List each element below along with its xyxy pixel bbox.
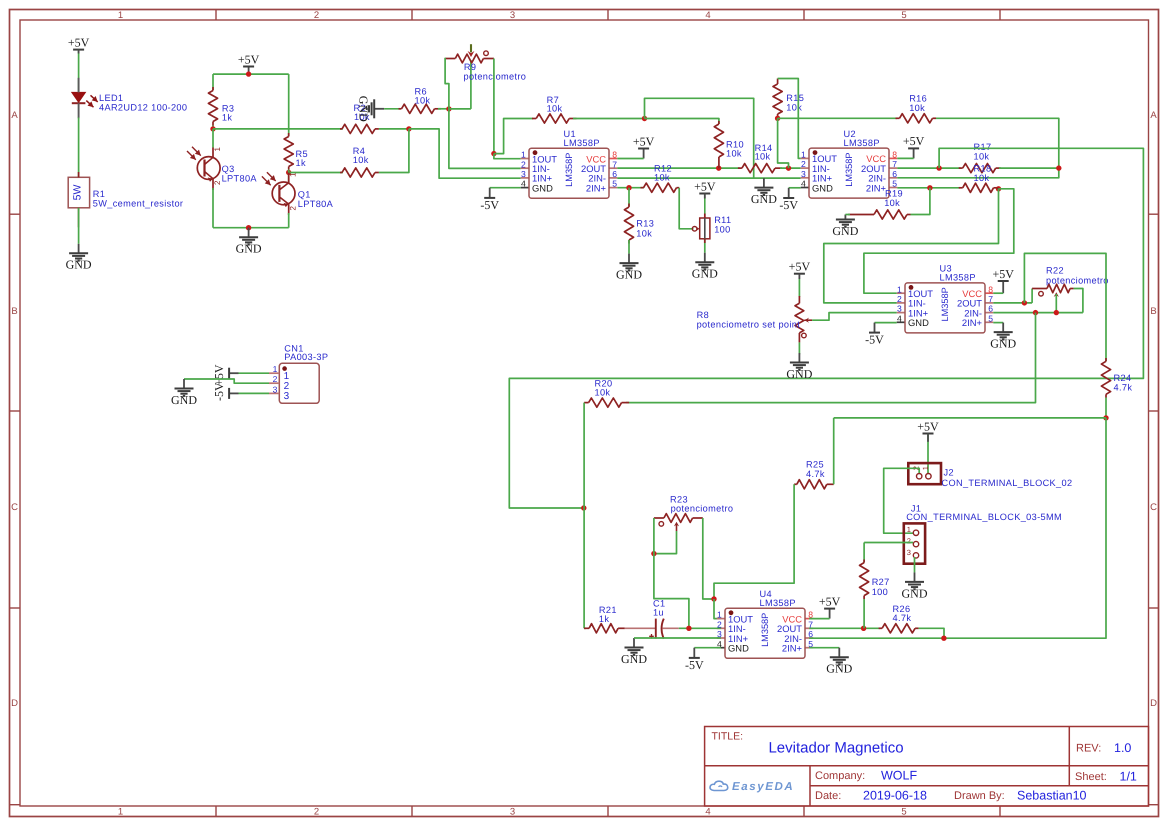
junction U2 pin5/R19 <box>927 185 932 190</box>
svg-text:GND: GND <box>902 586 928 600</box>
wire U3 pin7 row <box>993 302 1032 304</box>
svg-text:4: 4 <box>521 179 526 189</box>
op-amp U1 LM358P <box>521 158 529 160</box>
ground (U3 pin5) <box>1002 323 1004 333</box>
svg-text:10k: 10k <box>654 172 670 182</box>
wire CN1 pin1 to +5V <box>239 372 270 374</box>
trimmer R11 100 <box>700 218 710 239</box>
resistor R4 <box>340 172 342 174</box>
wire R17 to R16 vertical <box>999 167 1059 169</box>
svg-text:10k: 10k <box>636 228 652 238</box>
svg-text:10k: 10k <box>595 387 611 397</box>
resistor R10 <box>718 121 720 124</box>
wire R8 bottom to GND <box>798 342 800 354</box>
svg-text:R27: R27 <box>872 577 890 587</box>
svg-text:2IN+: 2IN+ <box>962 317 983 328</box>
ground (U4 pin3) <box>633 638 635 648</box>
junction R17/R16 <box>1056 165 1061 170</box>
svg-text:3: 3 <box>273 384 278 394</box>
power -5V rotated (CN1 pin3) <box>229 392 238 394</box>
svg-text:LM358P: LM358P <box>564 138 600 148</box>
svg-text:10k: 10k <box>415 96 431 106</box>
connector J1 CON_TERMINAL_BLOCK_03-5MM <box>904 523 925 563</box>
svg-text:J2: J2 <box>944 468 954 478</box>
svg-text:LPT80A: LPT80A <box>222 174 258 184</box>
svg-text:GND: GND <box>990 336 1016 350</box>
svg-text:GND: GND <box>616 267 642 281</box>
junction U1 pin1 node <box>491 151 496 156</box>
svg-text:1k: 1k <box>222 113 232 123</box>
junction R27 bottom <box>861 626 866 631</box>
wire U4 pin8 to +5V <box>809 618 830 620</box>
title block outline <box>705 727 1149 807</box>
power +5V (LED column) <box>73 49 84 51</box>
svg-text:GND: GND <box>786 367 812 381</box>
svg-text:B: B <box>11 306 17 317</box>
power +5V (R8 top) <box>794 273 805 275</box>
svg-text:1: 1 <box>921 466 930 470</box>
svg-text:PA003-3P: PA003-3P <box>284 352 328 362</box>
resistor R12 <box>641 187 644 189</box>
junction U3 pin7 <box>1022 300 1027 305</box>
junction U2 pin2 node <box>786 165 791 170</box>
svg-text:8: 8 <box>892 149 897 159</box>
svg-text:2IN+: 2IN+ <box>866 182 887 193</box>
junction pin6/wiper <box>1054 310 1059 315</box>
wire J1 pin3 to GND <box>914 557 916 572</box>
wire node to U4 pin1 <box>714 599 721 619</box>
frame column ticks top <box>215 10 217 21</box>
wire R23 right to U4 pin1 node <box>703 518 714 599</box>
svg-text:LM358P: LM358P <box>844 138 880 148</box>
wire R12 to R11 wiper <box>679 188 693 229</box>
svg-text:GND: GND <box>751 192 777 206</box>
wire R24 bottom to junction <box>1105 398 1107 418</box>
wire R2 to junction <box>379 128 409 130</box>
capacitor C1 1u polarized <box>625 627 655 629</box>
power +5V (U1 VCC) <box>643 149 645 159</box>
wire +5V to J2 pin1 <box>927 434 929 474</box>
junction R10 bottom <box>716 165 721 170</box>
svg-text:5W_cement_resistor: 5W_cement_resistor <box>93 198 184 208</box>
wire +5V to R3 <box>212 74 214 90</box>
svg-text:+5V: +5V <box>633 134 655 148</box>
power -5V (U3) <box>874 323 876 333</box>
resistor R3 <box>212 87 214 91</box>
resistor R13 <box>628 188 630 206</box>
wire node up to R7 <box>494 119 533 154</box>
ground (U1 pin6 row) <box>763 178 765 188</box>
svg-text:10k: 10k <box>755 151 771 161</box>
power +5V (phototransistor group) <box>248 67 250 75</box>
wire +5V to R11 <box>704 194 706 219</box>
svg-text:+5V: +5V <box>903 134 925 148</box>
svg-text:2: 2 <box>521 159 526 169</box>
svg-text:Drawn By:: Drawn By: <box>954 790 1005 802</box>
wire U4 pin3 row <box>634 637 721 639</box>
wire R4 to junction up <box>379 129 409 173</box>
svg-text:4.7k: 4.7k <box>1114 382 1133 392</box>
svg-text:C: C <box>1150 502 1157 513</box>
wire R19 to U2 pin5 <box>911 188 930 215</box>
svg-text:4: 4 <box>897 313 902 323</box>
wire R26 right down to pin6 row <box>919 628 944 638</box>
svg-text:5W: 5W <box>71 185 83 201</box>
svg-text:8: 8 <box>988 284 993 294</box>
power -5V (U4) <box>693 648 695 658</box>
svg-text:1: 1 <box>213 147 222 152</box>
svg-text:10k: 10k <box>547 104 563 114</box>
wire CN1 pin2 to GND <box>184 379 269 383</box>
resistor R16 <box>896 117 900 119</box>
junction U1 pin5/R13 <box>626 185 631 190</box>
svg-text:potenciometro: potenciometro <box>671 503 734 513</box>
svg-text:CON_TERMINAL_BLOCK_03-5MM: CON_TERMINAL_BLOCK_03-5MM <box>906 512 1062 522</box>
wire R25 left down to U4 pin1 node <box>714 484 794 599</box>
svg-text:-5V: -5V <box>685 658 704 672</box>
svg-text:2: 2 <box>213 180 222 185</box>
svg-text:10k: 10k <box>974 152 990 162</box>
resistor R2 <box>340 128 342 130</box>
potentiometer R9 <box>445 58 455 60</box>
resistor R18 <box>959 187 963 189</box>
wire U2 pin7 feedback long loop <box>509 148 1143 508</box>
wire gnd to R6 <box>384 108 400 110</box>
svg-text:7: 7 <box>892 159 897 169</box>
resistor R5 <box>288 133 290 137</box>
svg-text:+5V: +5V <box>917 419 939 433</box>
svg-text:3: 3 <box>907 548 911 557</box>
junction pin6/R20 net <box>1033 310 1038 315</box>
wire LED1 to R1 <box>78 118 80 178</box>
wire junction to Q1 collector <box>288 173 290 184</box>
frame row ticks right <box>1149 213 1159 215</box>
svg-text:D: D <box>11 698 18 709</box>
junction R24 bottom <box>1103 415 1108 420</box>
svg-text:8: 8 <box>612 150 617 160</box>
svg-text:10k: 10k <box>726 149 742 159</box>
wire R6 to junction <box>438 108 449 110</box>
svg-text:1.0: 1.0 <box>1114 741 1131 755</box>
resistor R21 <box>584 627 589 629</box>
svg-text:4: 4 <box>801 179 806 189</box>
svg-text:LM358P: LM358P <box>564 153 574 187</box>
wire junction to U1 pin3 <box>409 129 521 178</box>
svg-text:1k: 1k <box>599 614 609 624</box>
wire node to R2 <box>213 128 343 130</box>
wire R3 to node <box>212 126 214 129</box>
svg-text:LM358P: LM358P <box>940 273 976 283</box>
wire U1 pin8 to +5V <box>617 158 643 160</box>
svg-text:2IN+: 2IN+ <box>782 642 803 653</box>
svg-text:5: 5 <box>901 10 906 21</box>
ground (R11) <box>704 253 706 263</box>
svg-text:5: 5 <box>988 313 993 323</box>
LED LED1 <box>72 92 86 102</box>
svg-text:1: 1 <box>273 364 278 374</box>
junction C1/R23/U4 pin2 <box>686 626 691 631</box>
svg-text:1: 1 <box>118 806 123 817</box>
svg-text:6: 6 <box>988 304 993 314</box>
svg-text:6: 6 <box>612 169 617 179</box>
wire R18 node to U3 pin2 <box>824 189 999 303</box>
svg-text:1: 1 <box>118 10 123 21</box>
wire U1 pin7 row to U2 pin2 <box>617 167 740 169</box>
svg-text:2: 2 <box>314 806 319 817</box>
svg-text:4.7k: 4.7k <box>806 469 825 479</box>
power +5V (U3 VCC) <box>1002 281 1004 293</box>
power +5V (R11 top) <box>699 193 710 195</box>
ground (rotated, R6 input) <box>374 108 384 110</box>
wire U4 pin6 row <box>809 637 944 639</box>
svg-text:1: 1 <box>897 284 902 294</box>
power -5V (U2) <box>788 188 790 198</box>
wire U3 pin8 to +5V <box>993 292 1003 294</box>
ground (R19) <box>844 215 846 220</box>
svg-text:GND: GND <box>621 652 647 666</box>
ground (U4 pin5) <box>838 648 840 658</box>
svg-text:2: 2 <box>289 206 298 211</box>
wire R11 to GND <box>704 239 706 253</box>
power +5V (U4 VCC) <box>829 609 831 619</box>
ground (R13) <box>628 254 630 264</box>
svg-text:LM358P: LM358P <box>760 613 770 647</box>
svg-text:5: 5 <box>901 806 906 817</box>
wire U4 pin7 row <box>809 627 880 629</box>
svg-text:2IN+: 2IN+ <box>586 182 607 193</box>
potentiometer R22 <box>1032 288 1047 290</box>
svg-text:TITLE:: TITLE: <box>712 730 744 742</box>
wire U3 pin7 to R22 left <box>1031 289 1033 303</box>
wire C1 to U4 pin2 <box>679 627 721 629</box>
resistor R20 <box>584 402 589 404</box>
wire R20 left down to R21 <box>583 403 585 629</box>
junction R7/R10/feedback <box>642 116 647 121</box>
svg-text:R17: R17 <box>974 142 992 152</box>
svg-text:-5V: -5V <box>212 382 226 401</box>
wire junction to R9 wiper <box>449 108 471 110</box>
wire node to Q3 collector <box>212 129 214 148</box>
resistor R19 <box>848 214 874 216</box>
svg-text:3: 3 <box>284 391 290 402</box>
svg-text:GND: GND <box>356 96 370 122</box>
wire R24 junction to R25 <box>834 417 1106 419</box>
wire junction to R4 <box>289 172 343 174</box>
op-amp U3 LM358P <box>897 292 905 294</box>
svg-text:LPT80A: LPT80A <box>298 199 334 209</box>
wire R24 junction down to U4 pin6 row <box>944 418 1106 638</box>
svg-text:5: 5 <box>892 179 897 189</box>
svg-text:1: 1 <box>801 149 806 159</box>
ground (J1) <box>914 572 916 582</box>
wire U2 pin8 to +5V <box>897 157 913 159</box>
wire junction down to U1 pin2 <box>449 109 521 168</box>
wire U2 pin5 row <box>897 187 960 189</box>
svg-text:R13: R13 <box>636 219 654 229</box>
junction R5/Q1/R4 <box>286 170 291 175</box>
svg-text:+5V: +5V <box>789 259 811 273</box>
svg-text:1: 1 <box>521 150 526 160</box>
svg-text:10k: 10k <box>353 155 369 165</box>
svg-text:4: 4 <box>705 10 710 21</box>
svg-text:Levitador Magnetico: Levitador Magnetico <box>768 739 903 756</box>
svg-text:1u: 1u <box>653 608 664 618</box>
wire R18 node to U3 pin1 <box>864 189 1014 293</box>
svg-text:EasyEDA: EasyEDA <box>732 781 794 793</box>
title block title row divider <box>705 765 1149 767</box>
svg-text:R9: R9 <box>464 62 476 72</box>
wire +5V to R5 <box>288 74 290 136</box>
svg-text:GND: GND <box>236 242 262 256</box>
wire U3 pin6 to R20 <box>626 313 1035 403</box>
junction R23 left/wiper <box>651 551 656 556</box>
svg-text:B: B <box>1150 306 1156 317</box>
svg-text:2: 2 <box>801 159 806 169</box>
wire R27 to U4 pin7 <box>863 599 865 628</box>
wire R22 right to pin6 row <box>1074 289 1083 313</box>
frame row ticks left <box>10 213 21 215</box>
svg-text:10k: 10k <box>974 173 990 183</box>
svg-text:GND: GND <box>171 393 197 407</box>
svg-text:GND: GND <box>532 182 553 193</box>
svg-text:LM358P: LM358P <box>760 598 796 608</box>
wire gnd rail bottom <box>213 227 289 229</box>
wire R23 wiper down-left <box>654 531 677 554</box>
svg-text:3: 3 <box>510 10 515 21</box>
svg-text:-5V: -5V <box>865 333 884 347</box>
resistor R17 <box>959 167 963 169</box>
title block company/date divider <box>810 785 1149 787</box>
resistor R1 5W cement <box>68 177 89 208</box>
wire Q3 emitter to gnd rail <box>212 188 214 228</box>
wire +5V to LED1 <box>78 50 80 93</box>
svg-text:+5V: +5V <box>694 179 716 193</box>
title block logo cell divider <box>809 766 811 806</box>
wire feedback up and across <box>645 98 754 178</box>
svg-text:2: 2 <box>907 536 911 545</box>
svg-text:100: 100 <box>714 225 730 235</box>
potentiometer R8 set point <box>798 274 800 279</box>
svg-text:A: A <box>11 110 18 121</box>
svg-text:C: C <box>11 502 18 513</box>
svg-text:LED1: LED1 <box>99 93 123 103</box>
svg-text:1: 1 <box>289 172 298 177</box>
svg-text:GND: GND <box>908 317 929 328</box>
svg-text:R22: R22 <box>1046 266 1064 276</box>
wire J2 pin2 to J1 pin1 <box>884 468 920 533</box>
wire J1 pin2 to R27 <box>864 542 913 544</box>
wire U3 pin4 to -5V <box>875 322 897 324</box>
svg-text:potenciometro: potenciometro <box>1046 275 1109 285</box>
connector J2 CON_TERMINAL_BLOCK_02 <box>908 463 941 484</box>
svg-text:Q1: Q1 <box>298 190 311 200</box>
junction R3/Q3/R2 <box>210 126 215 131</box>
wire R15 node down to U2 pin2 node <box>778 118 789 168</box>
svg-text:2: 2 <box>273 374 278 384</box>
svg-text:LM358P: LM358P <box>844 152 854 186</box>
resistor R15 <box>777 79 779 85</box>
svg-text:GND: GND <box>66 258 92 272</box>
resistor R27 100 <box>863 543 865 563</box>
wire CN1 pin3 to -5V <box>239 392 270 394</box>
svg-text:2019-06-18: 2019-06-18 <box>863 788 927 802</box>
wire R15 top to U2 pin1 <box>778 79 801 159</box>
resistor R6 <box>399 108 402 110</box>
svg-text:Q3: Q3 <box>222 164 235 174</box>
wire U2 pin7 row <box>897 167 960 169</box>
svg-text:GND: GND <box>826 662 852 676</box>
wire R20/R21 column to R21 <box>584 627 586 629</box>
ground (R8) <box>798 353 800 363</box>
wire U3 pin6 row <box>993 312 1083 314</box>
svg-text:+5V: +5V <box>238 52 260 66</box>
power +5V (J2) <box>923 433 934 435</box>
EasyEDA logo <box>710 781 728 790</box>
power -5V (U1) <box>489 188 491 198</box>
svg-text:3: 3 <box>897 304 902 314</box>
resistor R24 <box>1105 358 1107 361</box>
wire U1 pin4 to -5V <box>490 187 521 189</box>
ground (CN1 pin2) <box>183 379 185 389</box>
svg-text:3: 3 <box>521 169 526 179</box>
wire R1 to GND <box>78 208 80 244</box>
junction R6/R9 <box>446 106 451 111</box>
svg-text:7: 7 <box>612 159 617 169</box>
svg-text:2: 2 <box>897 294 902 304</box>
junction feedback/R20/R21 <box>581 505 586 510</box>
wire R22 wiper down to pin6 row <box>1055 294 1057 313</box>
wire R9 terminal down to U1 pin1 node <box>493 59 495 154</box>
svg-text:R1: R1 <box>93 189 105 199</box>
wire R25 right up to R24 junction <box>833 418 835 484</box>
svg-text:4: 4 <box>705 806 710 817</box>
wire U2 pin4 to -5V <box>789 187 801 189</box>
wire R8 wiper to U3 pin3 <box>812 313 897 321</box>
svg-text:Sebastian10: Sebastian10 <box>1017 788 1087 802</box>
junction R26/pin6 <box>941 636 946 641</box>
svg-text:100: 100 <box>872 587 888 597</box>
op-amp U2 LM358P <box>801 157 809 159</box>
wire R13 to GND <box>628 240 630 254</box>
svg-text:+5V: +5V <box>992 267 1014 281</box>
wire R16 loop to U2 pin6 <box>897 118 1059 178</box>
ground (LED column) <box>78 244 80 254</box>
svg-text:-5V: -5V <box>779 198 798 212</box>
junction R15/R16 <box>775 116 780 121</box>
svg-text:R8: R8 <box>697 310 709 320</box>
wire R14 to U2 pin2 <box>780 167 801 169</box>
wire U1 pin5 to R12 <box>617 187 644 189</box>
svg-text:GND: GND <box>812 182 833 193</box>
potentiometer R23 <box>654 517 664 519</box>
resistor R7 <box>532 118 536 120</box>
title block rev/sheet divider <box>1068 727 1070 786</box>
junction R23 right/U4 pin1 <box>711 596 716 601</box>
wire U3 pin5 to GND <box>993 322 1003 324</box>
wire U3 pin7 to R24 top <box>1024 253 1106 361</box>
svg-text:+5V: +5V <box>68 35 90 49</box>
junction <box>246 71 251 76</box>
power +5V (U2 VCC) <box>913 148 915 158</box>
power +5V rotated (CN1 pin1) <box>229 372 238 374</box>
wire junction to R10 top <box>645 119 719 125</box>
ground (phototransistor group) <box>248 228 250 238</box>
svg-text:6: 6 <box>892 169 897 179</box>
svg-text:+5V: +5V <box>819 594 841 608</box>
svg-text:-5V: -5V <box>480 198 499 212</box>
svg-text:10k: 10k <box>884 198 900 208</box>
wire Q1 emitter to gnd rail <box>288 213 290 228</box>
